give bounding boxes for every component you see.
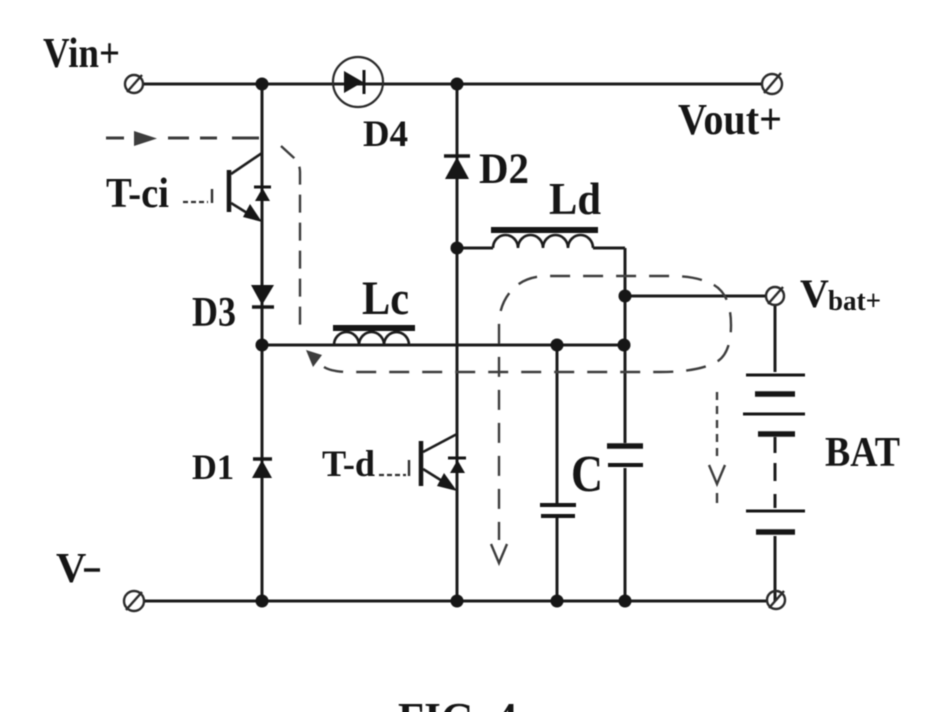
svg-text:T-ci: T-ci: [106, 171, 169, 217]
svg-text:V: V: [800, 271, 829, 316]
svg-text:D2: D2: [479, 146, 529, 193]
svg-text:Vin+: Vin+: [43, 31, 120, 77]
svg-text:D3: D3: [192, 290, 236, 336]
svg-text:Vout+: Vout+: [678, 95, 782, 144]
svg-text:Ld: Ld: [549, 173, 601, 224]
svg-text:V: V: [56, 546, 86, 592]
svg-text:Lc: Lc: [362, 272, 409, 325]
svg-text:D4: D4: [363, 114, 408, 155]
svg-text:D1: D1: [192, 447, 234, 487]
svg-text:FIG. 4: FIG. 4: [398, 693, 517, 712]
svg-text:BAT: BAT: [825, 430, 900, 476]
svg-text:T-d: T-d: [322, 444, 375, 485]
svg-text:C: C: [571, 446, 603, 503]
svg-text:bat+: bat+: [828, 286, 881, 317]
